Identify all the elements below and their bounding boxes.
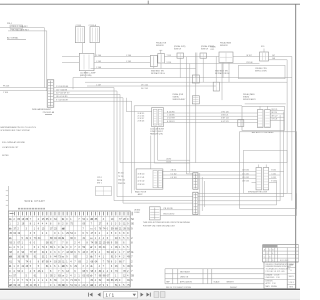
wire M4 left pin1 xyxy=(242,112,258,114)
svg-text:APPR: APPR xyxy=(266,282,272,285)
component M7 legend symbol xyxy=(149,207,160,220)
connector C1 xyxy=(47,80,54,107)
svg-text:USED ON: USED ON xyxy=(180,276,189,278)
wire C3 right upper resumed xyxy=(233,56,260,58)
boundary box M5 inner xyxy=(244,150,288,193)
connector SB3 xyxy=(192,96,199,104)
svg-text:108: 108 xyxy=(272,58,275,60)
module sensor right xyxy=(219,52,233,63)
wire B1 to C3 lower xyxy=(94,62,150,64)
wire M5 left pin4 xyxy=(252,181,257,183)
svg-text:29 C 104: 29 C 104 xyxy=(141,84,148,86)
harness outline bottom a xyxy=(114,200,193,202)
svg-text:FASTENERS ARE P/N OF 6 TLG: FASTENERS ARE P/N OF 6 TLG 40 PL N xyxy=(1,126,37,129)
svg-text:BK 126: BK 126 xyxy=(272,112,278,114)
svg-text:W 107: W 107 xyxy=(247,55,252,57)
svg-text:1 98: 1 98 xyxy=(276,277,280,279)
module M1 pin column R xyxy=(158,109,162,125)
svg-text:W/LB 106 RD: W/LB 106 RD xyxy=(163,214,175,216)
svg-text:PWR 153: PWR 153 xyxy=(118,183,125,185)
svg-text:AMP ASSY R TRIM PANEL: AMP ASSY R TRIM PANEL xyxy=(252,131,274,134)
bus wire B xyxy=(85,81,287,83)
svg-text:W SCREW 8 BOLT SEC SYSTEM: W SCREW 8 BOLT SEC SYSTEM xyxy=(1,130,30,132)
svg-text:1 RD 120: 1 RD 120 xyxy=(221,111,229,113)
arrow under C1 xyxy=(45,113,52,115)
svg-text:40 B 140: 40 B 140 xyxy=(138,173,145,175)
svg-text:4 GY 123: 4 GY 123 xyxy=(221,121,229,123)
connector C6 upper xyxy=(193,173,198,189)
svg-text:CONN: CONN xyxy=(134,212,140,214)
wire SB2 down xyxy=(195,83,197,96)
wire riser right of C6 b xyxy=(201,177,203,211)
svg-text:NOTES: NOTES xyxy=(2,155,9,157)
wire sensor left stub b xyxy=(160,63,162,69)
svg-text:RD 125: RD 125 xyxy=(272,109,278,111)
wire C1 pin1 xyxy=(54,87,114,89)
svg-text:2 98: 2 98 xyxy=(272,283,276,285)
svg-text:REF 56 7212 SHEET SYSTEM: REF 56 7212 SHEET SYSTEM xyxy=(166,287,191,289)
svg-text:K20: K20 xyxy=(261,46,264,48)
wire above M4 xyxy=(245,103,286,105)
svg-text:SWITCH: SWITCH xyxy=(201,49,209,51)
wire right vertical 6 xyxy=(296,193,298,215)
wire B1 bottom down xyxy=(84,71,86,78)
svg-text:RETRACTOR LH: RETRACTOR LH xyxy=(151,72,166,75)
wire pedal drv down xyxy=(179,58,181,77)
connector SB5 xyxy=(238,120,244,127)
wire W1 vertical xyxy=(43,28,45,88)
wire M3 left vert b xyxy=(221,64,223,101)
svg-text:WEIGHT: WEIGHT xyxy=(227,281,235,283)
title block revision table xyxy=(262,245,264,262)
wire C1 pin3 xyxy=(54,93,120,95)
svg-text:C 105: C 105 xyxy=(126,61,131,63)
svg-text:A 190: A 190 xyxy=(167,158,172,161)
svg-text:T 115: T 115 xyxy=(167,55,171,57)
svg-text:SENSOR ASSY: SENSOR ASSY xyxy=(173,98,187,101)
wire M5 right pin2 xyxy=(269,174,280,176)
boundary box M1 outer vertical xyxy=(131,101,133,193)
svg-text:CHECKED: CHECKED xyxy=(266,277,275,279)
harness outline vertical 2 xyxy=(116,91,118,197)
wire M4 left pin3 xyxy=(242,118,258,120)
svg-text:Y 104: Y 104 xyxy=(3,92,8,94)
wire vertical to C6 a xyxy=(185,57,187,174)
wire M6 to M5 1 xyxy=(163,170,252,172)
svg-text:1 OF 1: 1 OF 1 xyxy=(288,282,294,284)
svg-text:ALT DETAIL: ALT DETAIL xyxy=(7,37,19,40)
wire M4 right pin4 xyxy=(270,120,284,122)
svg-text:D 132: D 132 xyxy=(271,177,276,179)
wire M7 right long xyxy=(160,214,296,216)
viewer toolbar xyxy=(0,290,300,300)
wire M5 top stub a xyxy=(258,165,260,168)
module M6 pin column L xyxy=(153,171,157,188)
svg-text:C 131: C 131 xyxy=(271,173,276,175)
svg-text:1 / 1: 1 / 1 xyxy=(106,293,115,298)
wire C6 right 4 xyxy=(198,204,277,206)
svg-text:SERVO 4 SPD: SERVO 4 SPD xyxy=(255,70,268,72)
wire pedal pass down xyxy=(202,58,204,82)
svg-text:LOCATION IN CKT: LOCATION IN CKT xyxy=(2,146,19,149)
svg-text:2 BK 121: 2 BK 121 xyxy=(221,115,228,117)
boundary box M1 inner top xyxy=(134,105,242,107)
svg-text:FOLLOWING AT GROUND: FOLLOWING AT GROUND xyxy=(2,141,26,144)
svg-text:V 116: V 116 xyxy=(167,62,172,64)
svg-text:56021: 56021 xyxy=(289,276,294,278)
svg-text:31 P 105 WT GY: 31 P 105 WT GY xyxy=(56,93,70,95)
wire M6 to M5 3 xyxy=(163,178,252,180)
svg-text:APPLICATION: APPLICATION xyxy=(180,280,192,283)
svg-text:1: 1 xyxy=(267,253,268,255)
wire vertical to C6 b xyxy=(189,64,191,173)
svg-text:FOR REF ONLY SEE GROUND DIST: FOR REF ONLY SEE GROUND DIST xyxy=(143,226,176,228)
svg-text:2: 2 xyxy=(269,250,270,252)
svg-text:PK 103: PK 103 xyxy=(3,86,9,88)
svg-text:C 104: C 104 xyxy=(96,55,101,57)
connector C3a xyxy=(150,56,157,67)
svg-text:REV A: REV A xyxy=(97,179,103,182)
wire C1 pin4 xyxy=(54,97,123,99)
svg-text:B 115 RD: B 115 RD xyxy=(167,111,175,113)
svg-text:WIRE HARNESS ASSY: WIRE HARNESS ASSY xyxy=(32,108,52,111)
module M4 pin column L xyxy=(258,110,264,128)
wire M5 top stub b xyxy=(265,165,267,168)
svg-text:4 B 161: 4 B 161 xyxy=(171,170,177,172)
wire M3 right 1 xyxy=(269,56,292,58)
wire vertical to M6 a xyxy=(150,136,152,169)
wire from C2a down xyxy=(82,43,84,54)
box around label xyxy=(10,25,23,28)
wire M3 right 2 xyxy=(269,59,288,61)
svg-text:Y/B 105 RD: Y/B 105 RD xyxy=(163,208,173,210)
svg-text:SCALE: SCALE xyxy=(214,280,221,283)
svg-text:THIS DWG SYSTEM GROUND CIRCUIT: THIS DWG SYSTEM GROUND CIRCUITS SHOWN AS xyxy=(143,221,191,224)
wire M5 right pin3 xyxy=(269,178,277,180)
svg-text:GY 128: GY 128 xyxy=(272,119,278,121)
module M6 xyxy=(136,169,163,189)
wire M1 to M4 pin3 xyxy=(163,118,242,120)
svg-text:P/N 56021 AB: P/N 56021 AB xyxy=(43,111,55,114)
svg-text:B 191: B 191 xyxy=(167,161,172,163)
connector pedal pass xyxy=(200,53,207,58)
svg-text:FINISH: FINISH xyxy=(271,286,278,288)
wire M6 to M5 2 xyxy=(163,174,252,176)
wire sensor right stub a xyxy=(222,63,224,78)
harness outline bottom b xyxy=(123,202,193,204)
boundary box M4 xyxy=(242,106,284,130)
module M1 xyxy=(152,108,164,127)
svg-text:PNK TAILGATE RLY: PNK TAILGATE RLY xyxy=(11,28,30,31)
wire B1 to C3 upper xyxy=(94,56,150,58)
svg-text:SENSOR: SENSOR xyxy=(220,45,228,47)
svg-text:2 X 103 RD BK: 2 X 103 RD BK xyxy=(56,86,69,88)
svg-text:41 C 141: 41 C 141 xyxy=(138,177,145,179)
svg-text:4 RD/LG 100A RLY: 4 RD/LG 100A RLY xyxy=(11,25,29,28)
wire right vertical 5 xyxy=(276,180,278,205)
svg-text:B 130: B 130 xyxy=(271,170,275,172)
svg-text:SWITCH: SWITCH xyxy=(174,49,182,51)
wire M3 left vert a xyxy=(215,57,217,83)
wire center vertical pair a xyxy=(195,53,197,78)
connector C3b xyxy=(158,54,165,64)
bus wire C xyxy=(87,85,216,87)
wire riser right of C6 c xyxy=(204,181,206,207)
harness outline vertical 4 xyxy=(122,98,124,203)
module M5 pin column L xyxy=(256,168,262,190)
svg-text:NEXT ASSY: NEXT ASSY xyxy=(180,270,191,273)
bus wire A xyxy=(73,77,292,79)
svg-text:121 Y 104 BK: 121 Y 104 BK xyxy=(56,89,68,91)
wire C1 pin5 xyxy=(54,100,132,102)
wire M5 right pin4 xyxy=(269,181,277,183)
svg-text:ASSY: ASSY xyxy=(138,193,144,196)
connector mid small xyxy=(96,187,112,196)
module M1 pin column L xyxy=(153,109,157,125)
module M6 pin column R xyxy=(158,171,162,188)
svg-text:13 E 133: 13 E 133 xyxy=(242,181,249,183)
svg-text:6 D 163: 6 D 163 xyxy=(171,177,177,179)
svg-text:23 E 118: 23 E 118 xyxy=(138,121,145,123)
wire C3 stub up xyxy=(160,50,162,53)
wire M4 right pin2 xyxy=(270,113,284,115)
svg-text:5 C 162: 5 C 162 xyxy=(171,173,177,175)
svg-text:SENSOR ASSY: SENSOR ASSY xyxy=(243,98,257,101)
wire riser right of C6 a xyxy=(199,173,201,215)
svg-text:107: 107 xyxy=(272,55,275,57)
svg-text:RADIO RCVR: RADIO RCVR xyxy=(135,190,147,193)
module M4 pin column R xyxy=(265,110,271,128)
svg-text:E 118 GY: E 118 GY xyxy=(167,121,175,123)
svg-text:SPKR ASSY RR DOOR: SPKR ASSY RR DOOR xyxy=(248,190,268,193)
svg-text:RETRACTOR RH: RETRACTOR RH xyxy=(215,72,230,75)
connector C6 lower xyxy=(193,192,198,214)
application block xyxy=(165,268,264,270)
wire from left edge Y 104 xyxy=(0,90,47,92)
wire sensor left stub a xyxy=(153,67,155,69)
svg-text:SHT 1: SHT 1 xyxy=(97,182,102,184)
svg-text:WIRE CHART: WIRE CHART xyxy=(25,200,46,203)
boundary box M5 outer xyxy=(240,132,297,209)
boundary box cruise xyxy=(239,65,286,78)
wire M4 top stub a xyxy=(259,106,261,109)
wire M1 to M4 pin1 xyxy=(163,112,242,114)
svg-text:C 107: C 107 xyxy=(96,84,101,86)
wire W1 from left edge xyxy=(0,27,44,29)
wire C3 right upper xyxy=(164,56,219,58)
svg-text:43 E 143: 43 E 143 xyxy=(138,184,145,186)
connector SB2 xyxy=(192,75,199,83)
wire C3 right lower long xyxy=(164,63,259,65)
wire vertical to M6 b xyxy=(153,127,155,163)
svg-text:30 C 105: 30 C 105 xyxy=(141,88,148,90)
wire M5 left pin1 xyxy=(252,170,257,172)
svg-text:D 117 WT: D 117 WT xyxy=(167,118,176,120)
wire M3 stub up xyxy=(263,49,265,53)
wire chart ruler xyxy=(7,186,9,211)
svg-text:18 LG 106 RD: 18 LG 106 RD xyxy=(56,96,68,98)
wire right vertical 4 xyxy=(279,115,281,201)
title block main xyxy=(263,261,299,263)
bus wire A hook xyxy=(72,78,74,90)
svg-text:WEIGHT: WEIGHT xyxy=(230,287,238,289)
wire M1 to M4 pin4 xyxy=(163,122,242,124)
svg-text:RX 150: RX 150 xyxy=(118,173,124,175)
wire M4 right pin3 xyxy=(270,116,284,118)
wire right vertical 1 xyxy=(291,57,293,201)
svg-text:4: 4 xyxy=(272,253,273,255)
connector pedal drv xyxy=(177,53,184,58)
wire sensor right stub b xyxy=(228,63,230,83)
wire chart table grid xyxy=(8,211,130,287)
wire into B1 from left xyxy=(62,56,79,58)
wire M4 top stub b xyxy=(267,106,269,109)
svg-text:WT 127: WT 127 xyxy=(272,115,278,117)
wire C6 right 3 xyxy=(198,200,280,202)
svg-text:SENSOR: SENSOR xyxy=(156,45,164,47)
wire M1 to M4 pin2 xyxy=(163,115,242,117)
wire M4 left pin4 xyxy=(242,122,258,124)
svg-text:9 T 107 BK WT: 9 T 107 BK WT xyxy=(56,100,69,102)
module M5 pin column R xyxy=(263,168,269,190)
wire SB3 down xyxy=(195,104,197,163)
wire into B1 from left lower xyxy=(62,62,79,64)
wire B1 lower third xyxy=(91,68,196,70)
svg-text:42 D 142: 42 D 142 xyxy=(138,180,145,182)
wire W2 vertical xyxy=(46,31,48,91)
svg-text:C 104: C 104 xyxy=(126,55,131,57)
wire C6 right 1 xyxy=(198,192,292,194)
svg-text:E 133: E 133 xyxy=(271,181,275,183)
wire right vertical 3 xyxy=(283,112,285,197)
harness outline bottom c xyxy=(117,196,193,198)
svg-text:K2O: K2O xyxy=(211,49,215,51)
wire M5 left pin2 xyxy=(252,174,257,176)
wire W2 xyxy=(8,30,47,32)
svg-text:C 105: C 105 xyxy=(96,61,101,63)
svg-text:HARN (RR QTR): HARN (RR QTR) xyxy=(150,132,163,135)
connector SB4 xyxy=(213,82,219,91)
svg-text:3 WT 122: 3 WT 122 xyxy=(221,118,229,120)
svg-text:GND 152: GND 152 xyxy=(118,180,125,182)
wire from left edge PK 103 xyxy=(0,87,47,89)
svg-text:TX 151: TX 151 xyxy=(118,176,124,178)
harness outline horizontal mid xyxy=(120,162,287,164)
wire M7 right short xyxy=(160,209,193,211)
wire M4 left pin2 xyxy=(242,115,258,117)
wire chart column header note xyxy=(18,208,45,210)
svg-text:MATL: MATL xyxy=(266,285,271,288)
wire vertical to M6 c xyxy=(157,127,159,161)
svg-text:(BRN CONN): (BRN CONN) xyxy=(80,75,92,77)
boundary box M1 inner vertical xyxy=(133,106,135,191)
wire M5 left pin3 xyxy=(252,178,257,180)
wire from C2b down xyxy=(94,43,96,57)
svg-text:C 106: C 106 xyxy=(96,67,101,69)
harness outline vertical 1 xyxy=(113,88,115,201)
harness outline vertical 3 xyxy=(119,94,121,162)
svg-text:3: 3 xyxy=(269,257,270,259)
wire center vertical pair b xyxy=(196,53,198,83)
wire M4 right pin1 xyxy=(270,110,284,112)
wire C6 right 2 xyxy=(198,196,284,198)
revision table divider xyxy=(286,248,288,262)
svg-text:PK 108: PK 108 xyxy=(247,62,253,64)
wire C1 pin2 xyxy=(54,90,117,92)
wire M5 right pin1 xyxy=(269,170,284,172)
wire right vertical 2 xyxy=(286,60,288,163)
wire into M1 left xyxy=(127,111,152,113)
svg-text:C 116 BK: C 116 BK xyxy=(167,115,175,117)
svg-text:2 PL DEC .01 3 PL .005: 2 PL DEC .01 3 PL .005 xyxy=(266,271,285,273)
component B1 relay block xyxy=(79,53,94,70)
